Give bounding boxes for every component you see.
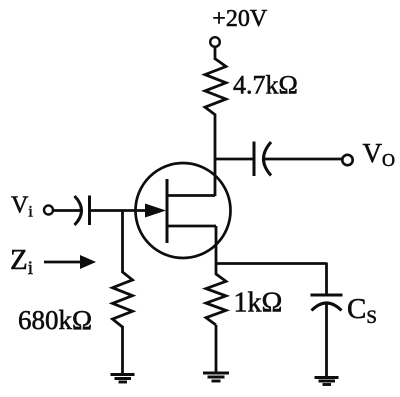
- source wire down: [215, 226, 218, 264]
- resistor RD 4.7k zigzag: [205, 59, 226, 115]
- wire drain vertical: [214, 114, 217, 196]
- svg-text:Zi: Zi: [10, 244, 33, 279]
- svg-text:Vi: Vi: [11, 193, 33, 221]
- resistor RS 1k zigzag: [206, 264, 226, 325]
- capacitor C1 curved plate: [75, 196, 82, 225]
- output terminal: [342, 155, 352, 165]
- gate arrowhead: [145, 204, 166, 218]
- wire supply to RD: [214, 47, 217, 60]
- svg-text:+20V: +20V: [212, 6, 268, 32]
- svg-text:CS: CS: [347, 293, 377, 328]
- input terminal: [44, 206, 53, 215]
- wire Cs to ground: [325, 304, 328, 378]
- supply terminal: [210, 37, 220, 47]
- transistor Q1 circle: [136, 163, 231, 258]
- wire gate junction down: [121, 210, 124, 273]
- svg-text:680kΩ: 680kΩ: [18, 305, 92, 335]
- svg-text:1kΩ: 1kΩ: [234, 288, 283, 319]
- transistor drain lead: [167, 194, 215, 197]
- capacitor C2 flat plate: [253, 142, 256, 177]
- source node wire to Cs: [215, 262, 327, 265]
- capacitor C2 curved plate: [264, 142, 272, 176]
- capacitor Cs curved plate: [312, 303, 342, 311]
- wire to output cap: [215, 158, 253, 161]
- resistor RG 680k zigzag: [113, 272, 133, 327]
- svg-text:4.7kΩ: 4.7kΩ: [233, 71, 298, 100]
- svg-text:VO: VO: [363, 138, 396, 170]
- transistor channel bar: [166, 179, 169, 243]
- wire RG to ground: [121, 326, 124, 374]
- ground middle: [203, 373, 229, 381]
- Zi arrow line: [44, 261, 82, 264]
- wire cap to Vo terminal: [265, 158, 343, 161]
- capacitor C1 flat plate: [88, 196, 91, 226]
- capacitor Cs flat plate: [311, 294, 343, 297]
- ground left: [111, 375, 135, 383]
- wire down to Cs: [325, 263, 328, 296]
- wire input terminal to cap: [53, 209, 80, 212]
- transistor source lead: [167, 225, 216, 228]
- wire RS to ground: [215, 325, 218, 373]
- gate wire: [90, 209, 160, 212]
- ground right: [315, 378, 339, 385]
- Zi arrowhead: [80, 255, 96, 269]
